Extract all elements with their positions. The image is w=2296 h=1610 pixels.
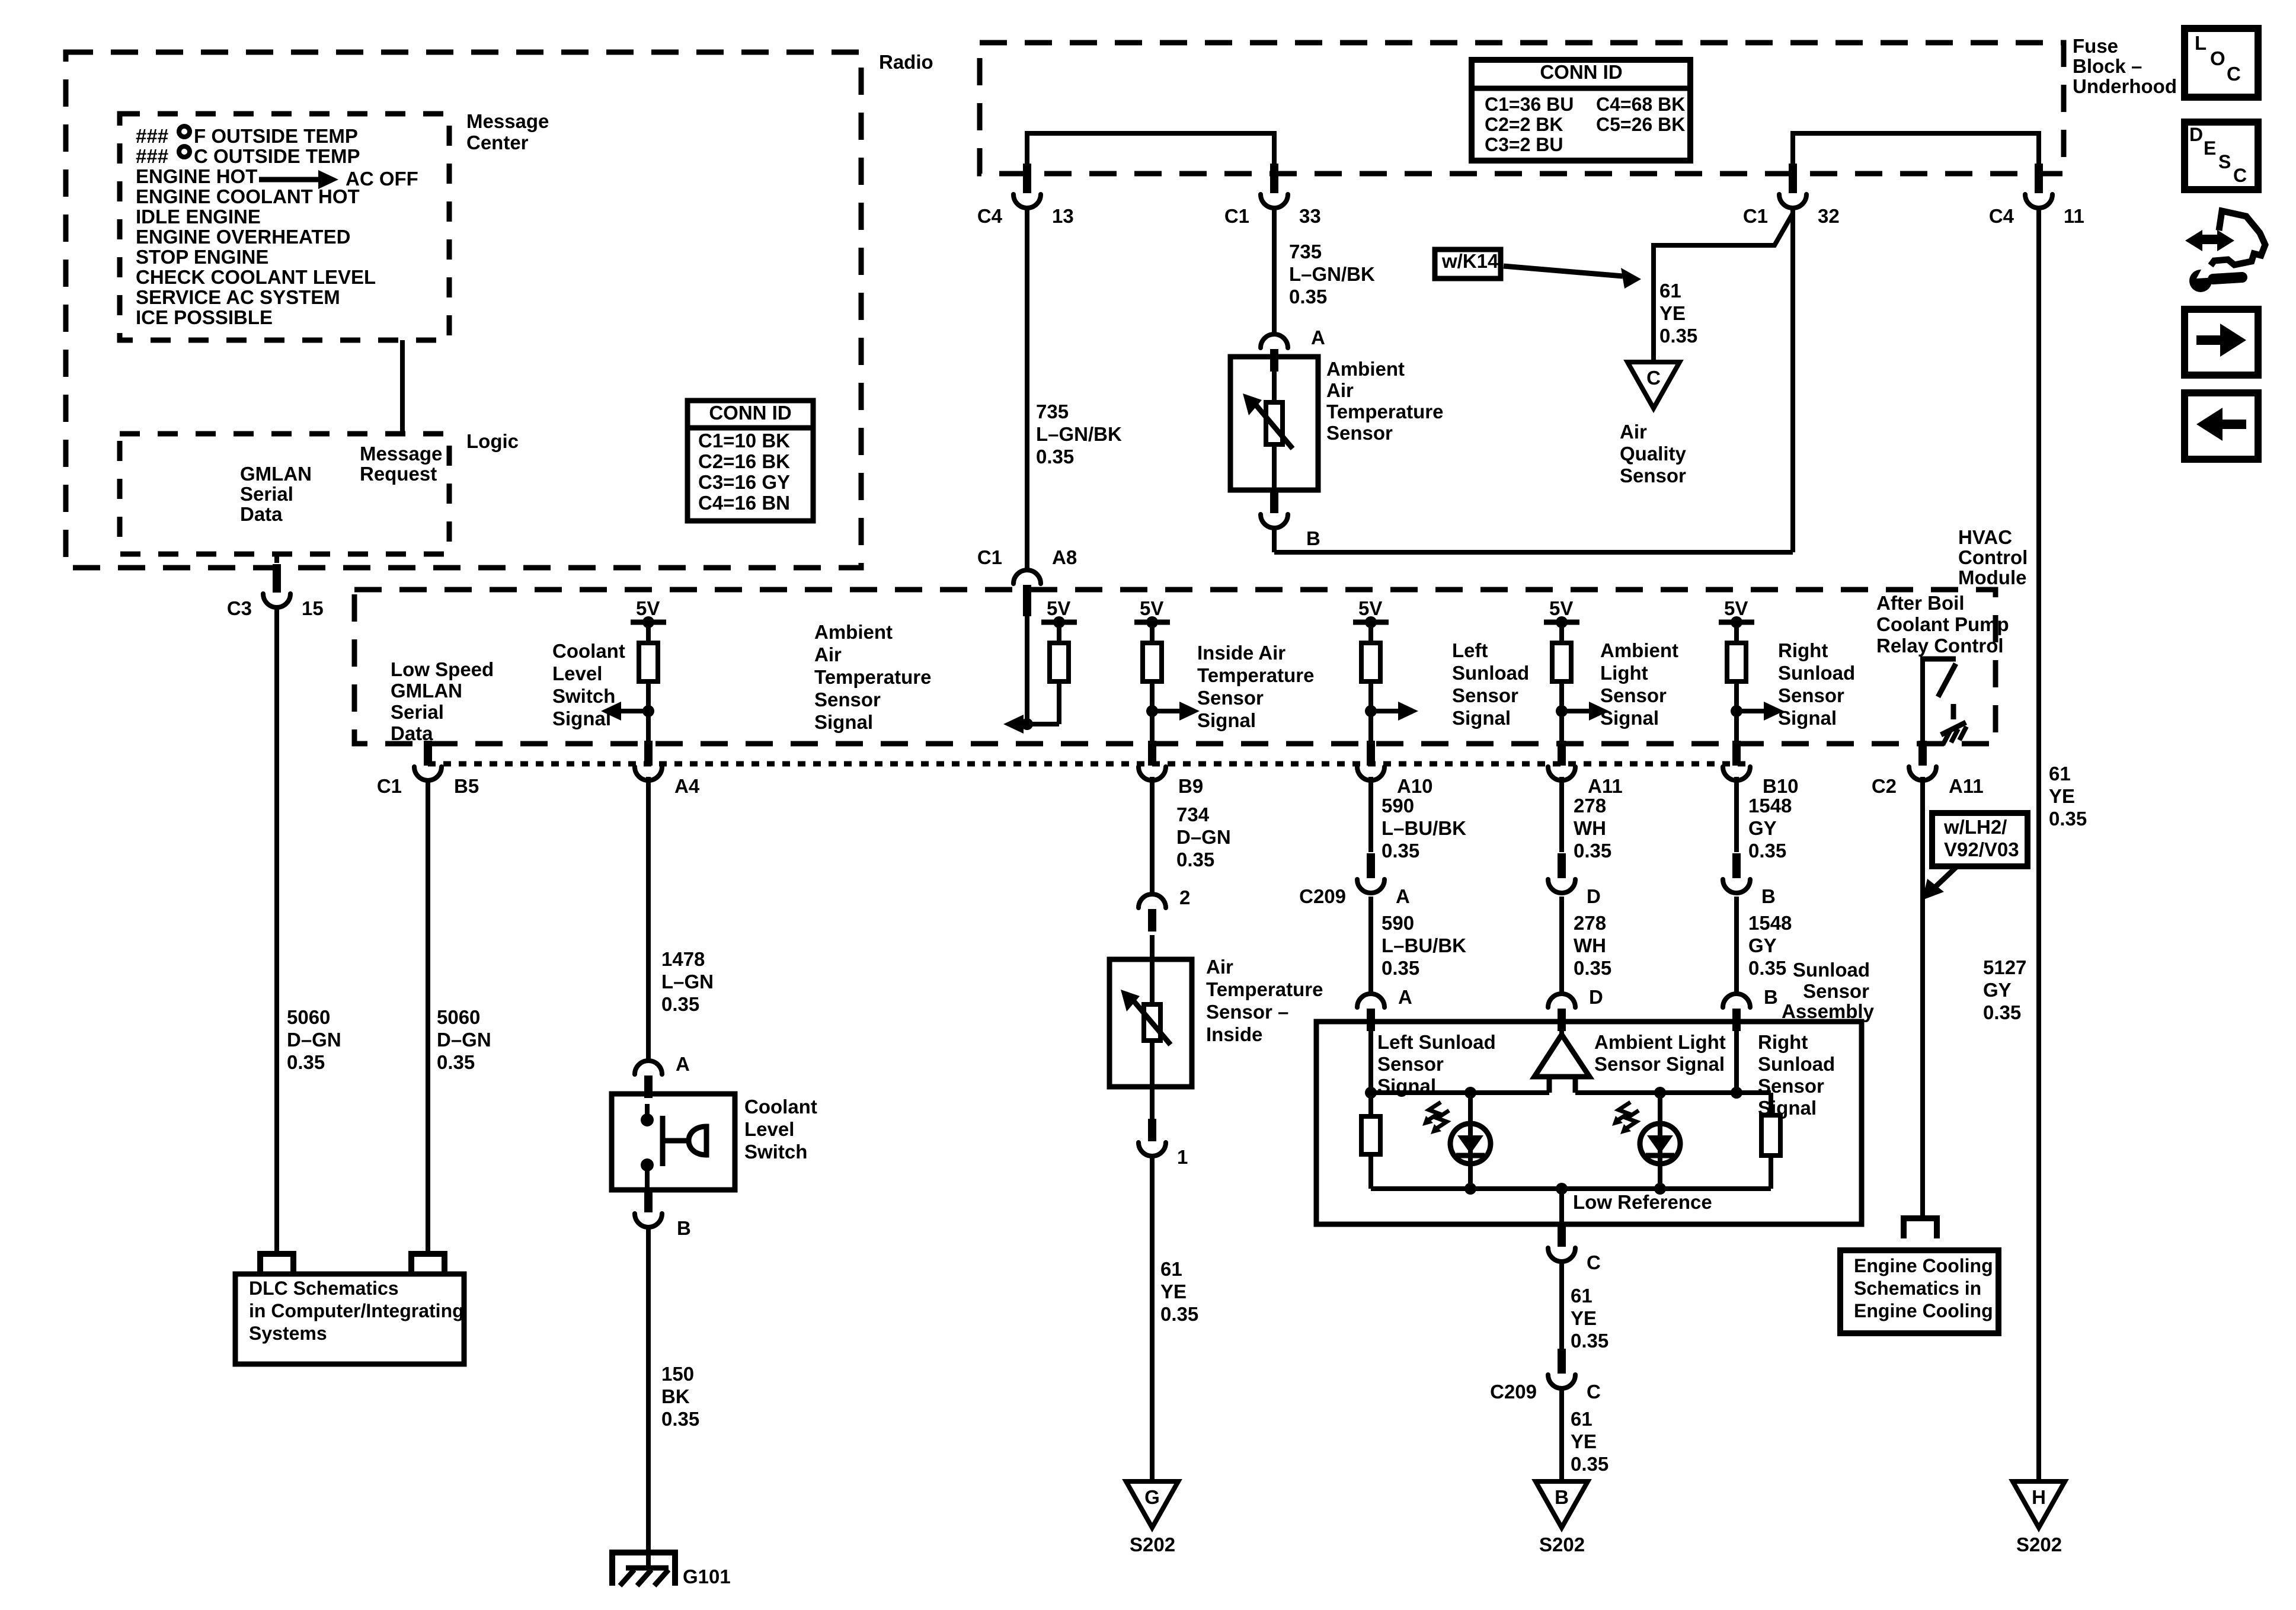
connector C1 pin B5: terminal cup xyxy=(414,767,442,780)
assembly terminal C: pin xyxy=(1558,1224,1566,1247)
wire 5127 GY from C2-A11 to engine cooling xyxy=(1920,777,1925,1218)
connector HVAC C2 pin A11: terminal cup xyxy=(1548,767,1575,780)
svg-text:w/LH2/: w/LH2/ xyxy=(1943,816,2007,838)
component-view icon: double arrow xyxy=(2198,235,2221,244)
Message Center box (dashed) xyxy=(120,114,449,340)
svg-text:Air: Air xyxy=(814,644,842,665)
connector C209 pin A: terminal cup xyxy=(1357,879,1384,893)
inside air temperature sensor terminal 2: pin xyxy=(1148,909,1156,932)
svg-text:61: 61 xyxy=(1659,280,1681,302)
svg-text:Temperature: Temperature xyxy=(1197,664,1314,686)
wire 61 YE from C4-11 to splice H xyxy=(2036,208,2041,1481)
svg-text:278: 278 xyxy=(1574,795,1606,817)
svg-text:After Boil: After Boil xyxy=(1876,592,1965,614)
svg-text:735: 735 xyxy=(1036,401,1069,422)
svg-text:B: B xyxy=(1306,527,1320,549)
assembly terminal C: cup xyxy=(1548,1248,1575,1262)
svg-text:13: 13 xyxy=(1052,205,1074,227)
svg-text:GMLAN: GMLAN xyxy=(391,680,462,702)
svg-text:C4: C4 xyxy=(1989,205,2014,227)
wire 735 L-GN/BK from C4-13 down to C1-A8 xyxy=(1025,208,1029,570)
svg-text:D: D xyxy=(1589,986,1603,1008)
svg-text:L–GN/BK: L–GN/BK xyxy=(1289,263,1375,285)
svg-text:5V: 5V xyxy=(1724,597,1748,619)
connector C4 pin 13: pin xyxy=(1023,164,1031,193)
svg-text:Block –: Block – xyxy=(2073,55,2142,77)
wire 1478 L-GN from A4 to coolant level switch xyxy=(646,777,651,1061)
svg-text:Center: Center xyxy=(466,132,529,153)
wire from sensor B to fuse block C1-32 xyxy=(1272,528,1277,552)
svg-text:ENGINE OVERHEATED: ENGINE OVERHEATED xyxy=(136,226,350,248)
svg-text:BK: BK xyxy=(661,1385,690,1407)
splice terminal triangle H xyxy=(2013,1481,2065,1528)
svg-text:S: S xyxy=(2218,151,2231,172)
inside air temperature sensor variable arrow xyxy=(1133,1000,1171,1045)
svg-text:Quality: Quality xyxy=(1620,443,1687,465)
svg-text:Schematics in: Schematics in xyxy=(1854,1278,1981,1299)
svg-text:G101: G101 xyxy=(683,1566,731,1587)
svg-text:Temperature: Temperature xyxy=(1206,978,1323,1000)
svg-text:C1: C1 xyxy=(377,775,402,797)
Fuse block CONN ID table xyxy=(1472,60,1690,161)
ambient air temperature sensor box xyxy=(1230,357,1318,490)
connector HVAC C2 pin A10: pin xyxy=(1367,741,1375,766)
svg-text:Left Sunload: Left Sunload xyxy=(1377,1031,1496,1053)
svg-text:F OUTSIDE TEMP: F OUTSIDE TEMP xyxy=(194,125,358,147)
svg-text:Sensor: Sensor xyxy=(1377,1053,1444,1075)
svg-text:B: B xyxy=(1761,885,1776,907)
svg-text:0.35: 0.35 xyxy=(1289,286,1327,308)
wire from coolant junction down to A4 xyxy=(646,711,651,741)
svg-text:Signal: Signal xyxy=(1197,709,1256,731)
svg-text:YE: YE xyxy=(1659,302,1686,324)
connector C1 pin A8: pin xyxy=(1023,585,1031,616)
svg-text:GY: GY xyxy=(1748,817,1777,839)
svg-text:C: C xyxy=(1646,367,1661,389)
wire 61 YE from C209-C to splice B xyxy=(1559,1388,1564,1481)
svg-text:B10: B10 xyxy=(1763,775,1799,797)
svg-text:G: G xyxy=(1144,1486,1160,1508)
svg-text:61: 61 xyxy=(1571,1285,1593,1307)
Radio outline (dashed box) xyxy=(66,52,861,568)
air quality sensor terminal triangle C xyxy=(1627,362,1680,408)
svg-text:CONN ID: CONN ID xyxy=(1540,61,1622,83)
connector HVAC C1 pin B9: pin xyxy=(1148,741,1156,766)
connector C1 pin 32: pin xyxy=(1789,164,1797,193)
svg-text:Module: Module xyxy=(1958,566,2026,588)
svg-text:A4: A4 xyxy=(674,775,700,797)
signal junction node for left sunload sensor signal xyxy=(1365,705,1377,717)
splice terminal triangle B xyxy=(1536,1481,1588,1528)
svg-text:Air: Air xyxy=(1206,956,1233,978)
forward arrow icon box xyxy=(2185,309,2258,375)
svg-text:DLC Schematics: DLC Schematics xyxy=(249,1278,399,1299)
inside air temperature sensor terminal 1: pin xyxy=(1148,1119,1156,1141)
svg-text:Inside: Inside xyxy=(1206,1023,1262,1045)
arrow from w/K14 to air quality sensor wire xyxy=(1504,266,1623,276)
svg-text:C1=36 BU: C1=36 BU xyxy=(1485,94,1574,115)
svg-text:33: 33 xyxy=(1299,205,1321,227)
svg-text:Switch: Switch xyxy=(552,685,615,707)
svg-text:C3: C3 xyxy=(227,597,252,619)
svg-text:D: D xyxy=(2189,124,2203,145)
wire 590 L-BU/BK from A10 to C209-A xyxy=(1368,777,1373,852)
svg-text:C1: C1 xyxy=(1743,205,1768,227)
svg-text:Signal: Signal xyxy=(1600,707,1659,729)
svg-text:0.35: 0.35 xyxy=(287,1051,325,1073)
svg-text:0.35: 0.35 xyxy=(1574,840,1611,862)
sunload assembly terminal B: pin xyxy=(1732,1009,1741,1031)
svg-text:0.35: 0.35 xyxy=(1748,840,1786,862)
svg-text:YE: YE xyxy=(1571,1307,1597,1329)
svg-text:Air: Air xyxy=(1326,379,1354,401)
svg-text:1478: 1478 xyxy=(661,948,705,970)
left divider resistor xyxy=(1368,1093,1373,1116)
svg-text:32: 32 xyxy=(1818,205,1840,227)
splice terminal triangle G xyxy=(1126,1481,1178,1528)
svg-text:Sensor: Sensor xyxy=(1803,980,1869,1002)
signal junction node for right sunload sensor signal xyxy=(1731,705,1742,717)
connector C2 pin A11: terminal cup xyxy=(1909,767,1936,780)
svg-text:Left: Left xyxy=(1452,639,1488,661)
svg-text:WH: WH xyxy=(1574,817,1606,839)
sunload assembly terminal B: terminal dome xyxy=(1723,994,1750,1007)
svg-text:C3=16 GY: C3=16 GY xyxy=(698,471,790,493)
svg-text:B: B xyxy=(1555,1486,1569,1508)
w/K14 option box xyxy=(1435,249,1501,279)
svg-text:CONN ID: CONN ID xyxy=(709,402,791,424)
svg-text:GY: GY xyxy=(1983,979,2012,1001)
pull-up resistor for coolant level switch signal xyxy=(646,622,651,643)
svg-text:0.35: 0.35 xyxy=(1571,1330,1609,1352)
svg-text:Ambient: Ambient xyxy=(814,621,893,643)
svg-text:Ambient: Ambient xyxy=(1600,639,1678,661)
svg-text:C2: C2 xyxy=(1872,775,1897,797)
pull-up resistor for right sunload sensor signal xyxy=(1734,622,1739,643)
connector C4 pin 13: terminal cup xyxy=(1013,194,1041,208)
DLC Schematics reference box xyxy=(235,1274,464,1364)
relay chassis ground symbol xyxy=(1941,722,1966,735)
svg-text:A8: A8 xyxy=(1052,546,1077,568)
signal junction node for ambient light sensor signal xyxy=(1556,705,1568,717)
svg-text:O: O xyxy=(2210,47,2225,69)
svg-text:278: 278 xyxy=(1574,912,1606,934)
svg-text:C1=10 BK: C1=10 BK xyxy=(698,430,790,452)
svg-text:Temperature: Temperature xyxy=(814,666,931,688)
svg-text:B9: B9 xyxy=(1178,775,1203,797)
svg-text:Request: Request xyxy=(360,463,437,485)
connector C4 pin 11: terminal cup xyxy=(2025,194,2052,208)
svg-text:L: L xyxy=(2195,32,2207,54)
coolant level switch terminal B: pin xyxy=(644,1190,653,1212)
component-view icon: wrench xyxy=(2189,270,2212,292)
wire 1548 GY from B10 to C209-B xyxy=(1734,777,1739,852)
svg-text:B: B xyxy=(677,1217,691,1239)
connector C1 pin 33: pin xyxy=(1270,164,1278,193)
svg-text:WH: WH xyxy=(1574,934,1606,956)
svg-text:Right: Right xyxy=(1758,1031,1808,1053)
wire from Logic to connector C3 pin 15 xyxy=(274,554,279,563)
ground G101 symbol xyxy=(612,1553,675,1586)
svg-text:Coolant Pump: Coolant Pump xyxy=(1876,613,2009,635)
assembly top bus wire xyxy=(1368,1022,1373,1093)
svg-text:ENGINE COOLANT HOT: ENGINE COOLANT HOT xyxy=(136,185,360,207)
connector C209 pin A: pin xyxy=(1367,853,1375,878)
svg-text:w/K14: w/K14 xyxy=(1441,250,1499,272)
svg-text:Serial: Serial xyxy=(240,483,293,505)
coolant level switch terminal A: terminal dome xyxy=(635,1061,662,1074)
svg-text:Signal: Signal xyxy=(814,711,873,733)
svg-text:C2=16 BK: C2=16 BK xyxy=(698,450,790,472)
svg-text:Ambient Light: Ambient Light xyxy=(1594,1031,1726,1053)
svg-text:YE: YE xyxy=(2049,785,2075,807)
svg-text:Sunload: Sunload xyxy=(1778,662,1855,684)
svg-text:S202: S202 xyxy=(2016,1534,2062,1555)
svg-text:590: 590 xyxy=(1382,795,1414,817)
connector C1 pin 33: terminal cup xyxy=(1261,194,1288,208)
svg-text:Ambient: Ambient xyxy=(1326,358,1405,380)
svg-text:5060: 5060 xyxy=(287,1006,330,1028)
svg-text:Low Speed: Low Speed xyxy=(391,658,494,680)
svg-text:Fuse: Fuse xyxy=(2073,35,2118,57)
svg-text:C3=2 BU: C3=2 BU xyxy=(1485,134,1563,155)
svg-text:5V: 5V xyxy=(1047,597,1070,619)
arrow from w/LH2 box to wire xyxy=(1933,867,1956,889)
low reference wire down from bus xyxy=(1559,1189,1564,1224)
svg-text:61: 61 xyxy=(2049,763,2071,785)
svg-text:0.35: 0.35 xyxy=(1036,446,1074,468)
svg-text:0.35: 0.35 xyxy=(2049,808,2087,830)
svg-text:Sensor –: Sensor – xyxy=(1206,1001,1288,1023)
svg-text:Underhood: Underhood xyxy=(2073,75,2177,97)
svg-text:C4=68 BK: C4=68 BK xyxy=(1596,94,1685,115)
terminal bracket at DLC (left) xyxy=(260,1254,293,1274)
svg-text:C2=2 BK: C2=2 BK xyxy=(1485,114,1563,135)
svg-text:1548: 1548 xyxy=(1748,795,1792,817)
svg-text:D–GN: D–GN xyxy=(287,1029,341,1051)
inside air temperature sensor thermistor element xyxy=(1150,935,1155,1004)
svg-text:Level: Level xyxy=(744,1118,794,1140)
assembly low reference bus wire xyxy=(1371,1186,1771,1191)
svg-text:Sunload: Sunload xyxy=(1793,959,1870,981)
wire 734 D-GN from B9 to inside air temperature sensor xyxy=(1150,777,1155,894)
ambient air temperature sensor terminal A: terminal dome xyxy=(1261,334,1288,348)
svg-text:GMLAN: GMLAN xyxy=(240,463,312,485)
signal junction node for inside air temperature sensor signal xyxy=(1146,705,1158,717)
coolant level switch terminal A: pin xyxy=(644,1076,653,1098)
coolant level switch box xyxy=(612,1094,735,1190)
svg-text:15: 15 xyxy=(302,597,324,619)
wire 61 YE to air quality sensor xyxy=(1654,213,1793,364)
wire 278 WH from C209-D to assembly xyxy=(1559,897,1564,993)
fuse block internal wire joining C1-32 and C4-11 xyxy=(1793,131,2039,136)
svg-text:Message: Message xyxy=(360,443,442,465)
ambient air temperature sensor variable arrow xyxy=(1255,404,1293,449)
svg-text:ICE POSSIBLE: ICE POSSIBLE xyxy=(136,306,273,328)
svg-text:11: 11 xyxy=(2064,205,2084,227)
svg-text:0.35: 0.35 xyxy=(1176,849,1214,870)
svg-text:A: A xyxy=(1311,327,1325,348)
svg-text:C OUTSIDE TEMP: C OUTSIDE TEMP xyxy=(194,145,360,167)
right sunload photodiode xyxy=(1658,1093,1662,1189)
inside air temperature sensor terminal 2: terminal dome xyxy=(1139,894,1166,908)
pull-up resistor for inside air temperature sensor signal xyxy=(1150,622,1155,643)
svg-text:1548: 1548 xyxy=(1748,912,1792,934)
svg-text:V92/V03: V92/V03 xyxy=(1944,838,2019,860)
wire 61 YE from assembly C to C209-C xyxy=(1559,1262,1564,1349)
svg-text:0.35: 0.35 xyxy=(1160,1303,1198,1325)
connector C209 pin B: terminal cup xyxy=(1723,879,1750,893)
svg-text:C4=16 BN: C4=16 BN xyxy=(698,492,790,514)
svg-text:C: C xyxy=(1587,1381,1601,1403)
wire 1548 GY from C209-B to assembly xyxy=(1734,897,1739,993)
svg-text:Light: Light xyxy=(1600,662,1648,684)
svg-text:734: 734 xyxy=(1176,804,1210,825)
terminal bracket at DLC (right) xyxy=(411,1254,445,1274)
pull-up resistor for left sunload sensor signal xyxy=(1368,622,1373,643)
svg-text:YE: YE xyxy=(1571,1430,1597,1452)
connector HVAC C2 pin A10: terminal cup xyxy=(1357,767,1384,780)
pull-up resistor for ambient light sensor signal xyxy=(1559,622,1564,643)
coolant level switch terminal B: cup xyxy=(635,1214,662,1227)
connector C1 pin 32: terminal cup xyxy=(1779,194,1806,208)
fuse block internal wire joining C4-13 and C1-33 xyxy=(1027,131,1274,136)
connector C1 pin A8: terminal dome xyxy=(1013,570,1041,584)
svg-text:AC OFF: AC OFF xyxy=(346,168,418,190)
svg-text:Sensor: Sensor xyxy=(1620,465,1686,486)
amplifier triangle for ambient light sensor xyxy=(1559,1019,1564,1037)
svg-text:C4: C4 xyxy=(977,205,1003,227)
svg-text:Signal: Signal xyxy=(1778,707,1837,729)
wire 5060 D-GN from C3-15 to DLC xyxy=(274,607,279,1251)
svg-text:ENGINE HOT: ENGINE HOT xyxy=(136,165,257,187)
connector HVAC C2 pin A11: pin xyxy=(1558,741,1566,766)
svg-text:Data: Data xyxy=(391,722,433,744)
svg-text:0.35: 0.35 xyxy=(437,1051,475,1073)
svg-text:C209: C209 xyxy=(1490,1381,1537,1403)
wire 735 L-GN/BK from C1-33 down to ambient sensor A xyxy=(1272,208,1277,334)
svg-text:61: 61 xyxy=(1160,1258,1182,1280)
connector C3 pin 15: terminal cup xyxy=(263,594,290,607)
svg-text:0.35: 0.35 xyxy=(1571,1453,1609,1475)
svg-text:D: D xyxy=(1587,885,1601,907)
wire 61 YE from sensor to splice G xyxy=(1150,1156,1155,1481)
ambient air temperature sensor terminal B: pin xyxy=(1270,490,1278,513)
svg-text:590: 590 xyxy=(1382,912,1414,934)
back arrow icon box xyxy=(2185,393,2258,459)
arrow ENGINE HOT to AC OFF xyxy=(259,177,321,183)
svg-text:Air: Air xyxy=(1620,421,1647,443)
svg-text:5060: 5060 xyxy=(437,1006,480,1028)
svg-text:Coolant: Coolant xyxy=(744,1096,817,1118)
svg-text:A: A xyxy=(1396,885,1410,907)
svg-text:Level: Level xyxy=(552,662,602,684)
svg-text:0.35: 0.35 xyxy=(1748,957,1786,979)
svg-text:C209: C209 xyxy=(1299,885,1346,907)
terminal bracket at engine cooling box xyxy=(1904,1218,1937,1238)
svg-text:2: 2 xyxy=(1179,886,1190,908)
svg-text:C: C xyxy=(2233,165,2247,186)
svg-text:S202: S202 xyxy=(1130,1534,1175,1555)
svg-text:5V: 5V xyxy=(1549,597,1573,619)
svg-text:D–GN: D–GN xyxy=(437,1029,491,1051)
svg-text:Assembly: Assembly xyxy=(1782,1000,1875,1022)
svg-text:Sensor: Sensor xyxy=(1778,684,1844,706)
svg-text:0.35: 0.35 xyxy=(661,1408,699,1430)
svg-text:S202: S202 xyxy=(1539,1534,1585,1555)
component-view icon: component outline xyxy=(2211,211,2265,265)
svg-text:B5: B5 xyxy=(454,775,479,797)
svg-text:Sensor: Sensor xyxy=(814,689,881,710)
svg-text:B: B xyxy=(1764,986,1778,1008)
connector C209 pin C: terminal cup xyxy=(1548,1375,1575,1388)
svg-text:Right: Right xyxy=(1778,639,1828,661)
svg-text:A10: A10 xyxy=(1397,775,1433,797)
svg-text:Low Reference: Low Reference xyxy=(1573,1191,1712,1213)
svg-text:SERVICE AC SYSTEM: SERVICE AC SYSTEM xyxy=(136,286,340,308)
connector HVAC C2 pin B10: pin xyxy=(1732,741,1741,766)
svg-text:A11: A11 xyxy=(1949,775,1984,797)
svg-text:L–GN/BK: L–GN/BK xyxy=(1036,423,1122,445)
coolant level switch contacts and float xyxy=(645,1104,650,1118)
svg-text:Signal: Signal xyxy=(552,708,611,729)
svg-text:Data: Data xyxy=(240,503,283,525)
svg-text:735: 735 xyxy=(1289,241,1322,263)
svg-text:5V: 5V xyxy=(1140,597,1163,619)
svg-text:C1: C1 xyxy=(1224,205,1249,227)
svg-text:Control: Control xyxy=(1958,546,2028,568)
ambient air temperature sensor thermistor element xyxy=(1272,357,1277,402)
svg-text:0.35: 0.35 xyxy=(1983,1001,2021,1023)
Fuse Block - Underhood box (dashed) xyxy=(980,43,2064,174)
svg-text:C5=26 BK: C5=26 BK xyxy=(1596,114,1685,135)
svg-text:Signal: Signal xyxy=(1452,707,1511,729)
svg-text:IDLE ENGINE: IDLE ENGINE xyxy=(136,206,261,228)
svg-text:0.35: 0.35 xyxy=(1382,840,1419,862)
svg-text:61: 61 xyxy=(1571,1408,1593,1430)
connector C2 pin A11: pin xyxy=(1918,741,1927,766)
connector C209 pin D: pin xyxy=(1558,853,1566,878)
svg-text:Message: Message xyxy=(466,110,549,132)
right divider resistor xyxy=(1737,1090,1771,1095)
svg-text:Sensor: Sensor xyxy=(1452,684,1518,706)
wire 590 L-BU/BK from C209-A to assembly xyxy=(1368,897,1373,993)
connector C1 pin B5: pin xyxy=(424,741,432,766)
connector HVAC C1 pin B9: terminal cup xyxy=(1139,767,1166,780)
connector C209 pin B: pin xyxy=(1732,853,1741,878)
svg-text:Engine Cooling: Engine Cooling xyxy=(1854,1300,1993,1321)
svg-text:Inside Air: Inside Air xyxy=(1197,642,1285,664)
svg-text:Switch: Switch xyxy=(744,1141,807,1163)
sunload assembly terminal A: pin xyxy=(1367,1009,1375,1031)
wire from inside-air junction down to B9 xyxy=(1150,711,1155,741)
inside air temperature sensor terminal 1: cup xyxy=(1139,1142,1166,1156)
svg-text:H: H xyxy=(2032,1486,2046,1508)
svg-text:GY: GY xyxy=(1748,934,1777,956)
svg-text:HVAC: HVAC xyxy=(1958,526,2012,548)
Logic box (dashed) xyxy=(120,434,449,554)
svg-text:Sunload: Sunload xyxy=(1758,1053,1835,1075)
svg-text:Sunload: Sunload xyxy=(1452,662,1529,684)
svg-text:5V: 5V xyxy=(636,597,660,619)
left sunload photodiode xyxy=(1468,1093,1473,1189)
svg-text:5V: 5V xyxy=(1358,597,1382,619)
ambient air temperature sensor terminal B: cup xyxy=(1261,514,1288,528)
sunload assembly terminal A: terminal dome xyxy=(1357,994,1384,1007)
svg-text:###: ### xyxy=(136,145,168,167)
connector HVAC C2 pin B10: terminal cup xyxy=(1723,767,1750,780)
Radio CONN ID table xyxy=(687,401,813,521)
